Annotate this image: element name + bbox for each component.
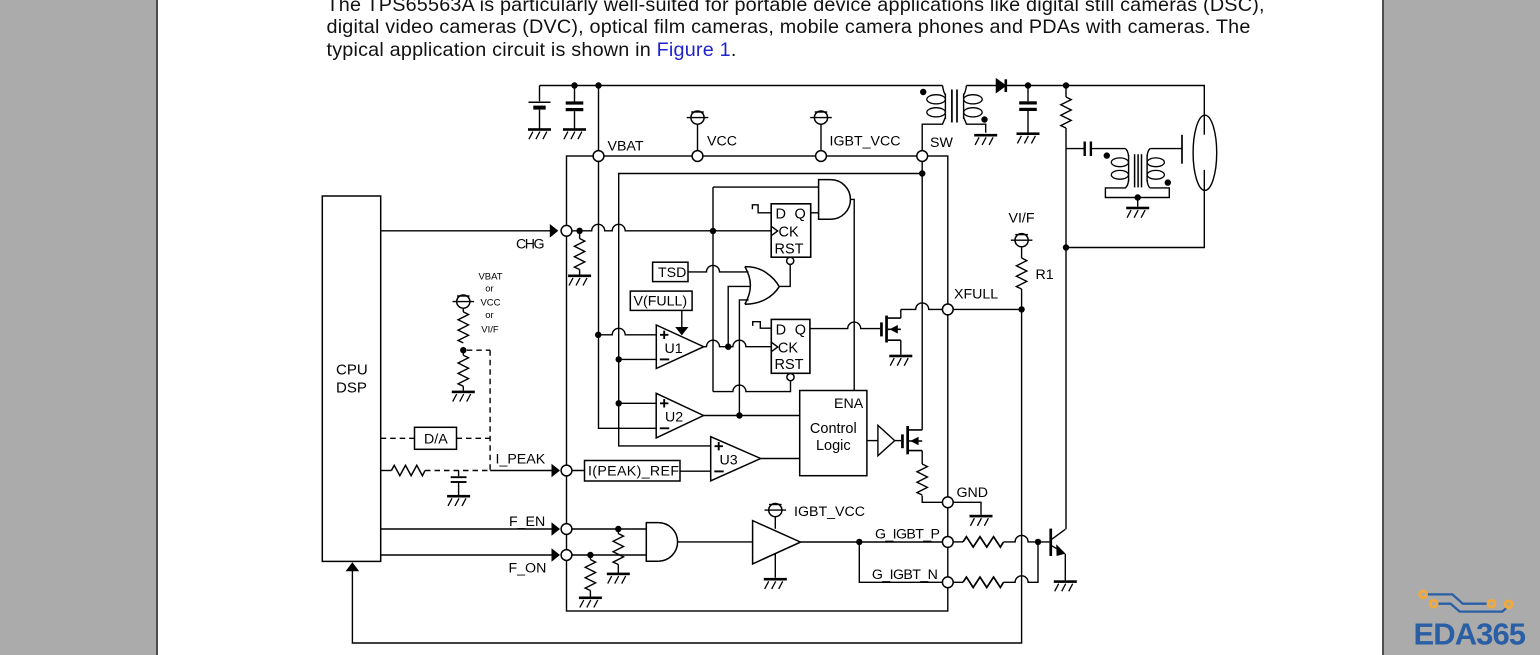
svg-text:CK: CK [779,225,799,241]
svg-text:XFULL: XFULL [954,287,998,303]
svg-text:U3: U3 [720,453,738,469]
svg-text:or: or [485,310,493,321]
svg-text:F_ON: F_ON [509,561,547,577]
svg-text:GND: GND [957,485,989,501]
svg-text:VBAT: VBAT [478,272,502,283]
svg-text:VCC: VCC [707,134,737,150]
svg-text:Q: Q [795,322,806,338]
svg-text:U1: U1 [665,341,683,357]
svg-text:ENA: ENA [834,396,864,412]
svg-text:Q: Q [795,206,806,222]
svg-text:U2: U2 [665,410,683,426]
svg-text:F_EN: F_EN [509,514,545,530]
svg-text:Control: Control [810,421,857,437]
svg-text:or: or [485,284,493,295]
svg-text:RST: RST [775,357,804,373]
svg-text:VBAT: VBAT [608,139,644,155]
svg-text:D: D [776,206,786,222]
svg-text:EDA365: EDA365 [1414,617,1527,652]
svg-text:CHG: CHG [516,237,545,253]
svg-text:RST: RST [775,242,804,258]
svg-text:DSP: DSP [336,380,367,397]
svg-text:G_IGBT_P: G_IGBT_P [875,527,940,543]
svg-text:Logic: Logic [816,438,851,454]
svg-text:V(FULL): V(FULL) [634,294,688,310]
svg-text:TSD: TSD [658,265,686,281]
svg-text:SW: SW [930,135,953,151]
svg-text:VI/F: VI/F [481,325,499,336]
svg-text:I(PEAK)_REF: I(PEAK)_REF [588,464,679,480]
svg-text:CK: CK [778,341,798,357]
svg-text:R1: R1 [1036,267,1054,283]
svg-text:G_IGBT_N: G_IGBT_N [872,567,938,583]
svg-text:D/A: D/A [424,431,448,447]
svg-text:VCC: VCC [480,298,500,309]
svg-text:IGBT_VCC: IGBT_VCC [794,504,865,520]
svg-text:CPU: CPU [336,362,368,379]
svg-text:I_PEAK: I_PEAK [496,452,546,468]
svg-text:D: D [776,322,786,338]
svg-text:VI/F: VI/F [1009,211,1035,227]
svg-text:IGBT_VCC: IGBT_VCC [830,134,901,150]
